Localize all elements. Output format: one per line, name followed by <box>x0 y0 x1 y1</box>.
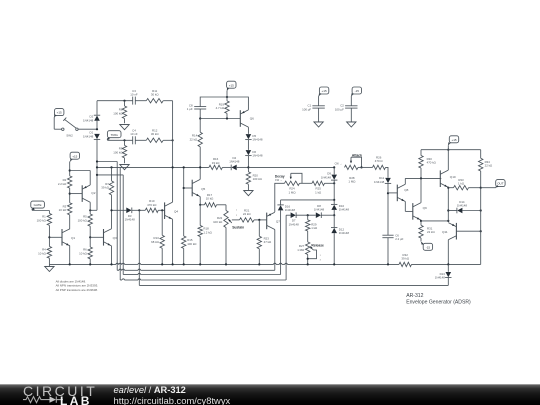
wire <box>96 174 123 176</box>
wire <box>481 187 496 189</box>
wire <box>386 167 389 177</box>
net flag GATE <box>31 201 45 210</box>
resistor R32 <box>399 253 412 267</box>
wire <box>405 202 413 212</box>
resistor R10 <box>145 199 158 212</box>
resistor R7 <box>101 167 113 210</box>
note text <box>56 279 99 291</box>
wire <box>247 127 249 134</box>
resistor R2 <box>58 176 72 188</box>
resistor R16 <box>209 157 223 169</box>
capacitor C2 <box>335 104 358 112</box>
ground <box>244 191 253 196</box>
resistor R17 <box>200 193 216 207</box>
diode D8 <box>314 204 325 218</box>
resistor R20 <box>246 167 262 190</box>
wire <box>89 226 91 247</box>
capacitor C4 <box>130 129 138 145</box>
wire <box>70 193 83 195</box>
diode D14 <box>457 200 468 213</box>
wire (feedback loop 2) <box>123 175 280 275</box>
capacitor C3 <box>130 89 138 104</box>
resistor R14 <box>190 119 203 168</box>
wire <box>184 187 193 189</box>
wire <box>274 230 276 271</box>
power flag +15 <box>319 87 329 96</box>
wire <box>307 255 309 265</box>
diode D7 <box>289 212 300 226</box>
wire <box>321 214 334 216</box>
transistor Q9 (NPN) <box>413 203 427 220</box>
wire <box>448 210 457 212</box>
transistor Q3 (NPN) <box>104 229 118 246</box>
wire (feedback loop 4) <box>139 210 448 285</box>
wire <box>107 139 132 141</box>
wire <box>333 210 335 216</box>
wire <box>70 170 91 172</box>
diode D13 <box>435 264 452 279</box>
wire <box>254 219 267 221</box>
resistor R23 <box>257 220 272 265</box>
wire <box>420 238 422 242</box>
wire <box>97 100 133 102</box>
wire <box>32 211 49 214</box>
ground bus wire <box>49 263 399 265</box>
wire <box>296 214 316 216</box>
wire <box>387 183 389 235</box>
ground <box>45 264 54 271</box>
wire <box>96 101 98 115</box>
diode D11 <box>374 176 391 184</box>
transistor Q4 (NPN) <box>165 202 179 219</box>
wire <box>469 187 482 189</box>
wire <box>281 199 335 201</box>
wire <box>456 230 481 232</box>
wire <box>300 182 313 184</box>
transistor Q8 (NPN) <box>397 184 408 201</box>
transistor Q1 (NPN) <box>62 229 75 246</box>
wire <box>404 178 406 184</box>
wire <box>183 248 185 264</box>
resistor R13 <box>151 210 164 264</box>
wire <box>200 117 240 119</box>
wire <box>318 108 320 122</box>
capacitor C1 <box>302 104 325 112</box>
wire <box>199 109 201 120</box>
resistor R5 <box>78 214 93 226</box>
ground <box>314 122 323 127</box>
diode D2 <box>83 115 100 123</box>
wire <box>183 167 185 236</box>
wire <box>48 225 50 246</box>
wire <box>111 246 113 265</box>
wire (feedback loop 1) <box>117 162 275 271</box>
resistor R34 <box>479 150 494 188</box>
wire <box>286 214 291 216</box>
wire <box>49 236 62 238</box>
wire <box>172 101 174 202</box>
diode D9 <box>321 167 338 180</box>
wire <box>158 209 164 211</box>
wire <box>135 100 146 102</box>
wire <box>333 233 335 264</box>
power flag +15 <box>70 152 79 161</box>
wire <box>96 166 125 168</box>
wire <box>420 178 422 202</box>
wire <box>222 166 231 168</box>
wire <box>447 150 449 170</box>
wire <box>132 209 146 211</box>
wire (feedback loop 3) <box>120 167 286 280</box>
transistor Q2 (PNP) <box>82 185 96 202</box>
ground <box>347 122 356 127</box>
resistor R8 <box>113 101 126 124</box>
wire <box>111 210 113 228</box>
wire <box>89 171 91 186</box>
diode D4 <box>229 156 240 170</box>
wire <box>447 145 449 151</box>
resistor R29 <box>306 215 319 231</box>
potentiometer R24 Decay <box>275 173 302 194</box>
wire <box>318 96 320 106</box>
net flag TRIG <box>107 131 121 140</box>
wire <box>307 231 309 242</box>
diode D10 <box>331 200 349 212</box>
resistor R6 <box>79 247 92 259</box>
wire <box>247 140 249 150</box>
wire <box>89 209 97 211</box>
wire <box>480 188 482 265</box>
diode D6 <box>245 150 263 158</box>
net flag OUT <box>496 180 505 188</box>
wire <box>285 215 287 280</box>
wire <box>96 121 98 129</box>
transistor Q6 (PNP) <box>240 110 254 127</box>
ground <box>120 165 129 170</box>
power flag +15 <box>448 136 458 145</box>
ground <box>120 125 129 130</box>
CircuitLab logo <box>23 383 97 399</box>
wire <box>69 246 71 265</box>
diode D3 <box>125 208 136 222</box>
capacitor C8 <box>187 103 206 111</box>
transistor Q10 (NPN) <box>440 170 456 187</box>
wire <box>447 278 449 286</box>
resistor R15 <box>182 236 198 248</box>
wire <box>358 166 373 168</box>
wire <box>69 188 71 203</box>
wire <box>96 160 117 162</box>
wire <box>247 156 249 168</box>
power flag +15 (switch supply) <box>54 109 64 118</box>
wire <box>217 205 227 211</box>
wire <box>172 219 174 264</box>
resistor R3 <box>59 203 72 215</box>
wire <box>308 250 317 259</box>
wire <box>225 228 227 265</box>
wire <box>280 210 282 274</box>
logo resistor-diode glyph <box>23 396 63 402</box>
wire <box>163 100 172 102</box>
wire <box>96 139 98 210</box>
wire <box>275 183 285 212</box>
resistor R4 <box>38 246 51 258</box>
resistor R30 <box>419 150 437 179</box>
wire <box>199 167 201 179</box>
switch SW2 <box>62 118 79 138</box>
resistor R1 <box>37 213 52 225</box>
wire <box>412 263 481 265</box>
resistor R12 <box>146 129 163 143</box>
diode D16 <box>277 200 295 212</box>
transistor Q5 (NPN) <box>192 179 205 196</box>
wire <box>420 220 422 226</box>
resistor R25 <box>312 181 325 194</box>
wire <box>110 209 126 211</box>
wire <box>350 108 352 122</box>
wire <box>163 139 174 141</box>
wire <box>421 220 449 222</box>
resistor R33 <box>448 178 468 190</box>
diode D12 <box>331 215 349 235</box>
resistor R26 <box>373 155 386 169</box>
wire <box>90 236 103 238</box>
wire <box>54 117 61 129</box>
wire <box>48 258 50 264</box>
wire <box>388 192 397 194</box>
power flag -15 <box>351 87 361 96</box>
resistor R31 <box>419 225 436 238</box>
wire <box>421 149 481 151</box>
wire <box>462 209 481 211</box>
wire <box>69 215 71 229</box>
potentiometer R27 Release <box>297 242 324 262</box>
wire <box>350 96 352 106</box>
wire <box>447 240 449 265</box>
wire <box>405 177 441 179</box>
title text <box>406 293 471 305</box>
power flag -15 <box>421 242 432 250</box>
wire <box>226 91 228 97</box>
resistor R21 <box>240 208 255 222</box>
wire <box>125 166 209 168</box>
capacitor C6 <box>382 233 403 241</box>
resistor R11 <box>146 89 163 103</box>
wire <box>89 259 91 265</box>
wire <box>199 197 201 206</box>
footer bar <box>0 384 540 405</box>
diode D1 <box>83 131 100 140</box>
potentiometer R22 Sustain <box>213 210 244 230</box>
wire <box>237 166 250 168</box>
transistor Q7 (PNP, emitter up) <box>267 212 281 229</box>
wire <box>78 128 98 130</box>
wire <box>248 166 335 168</box>
wire <box>333 180 335 201</box>
potentiometer R28 Attack <box>335 153 363 183</box>
wire <box>447 187 449 221</box>
wire <box>69 161 71 176</box>
diode D5 <box>245 134 263 142</box>
transistor Q11 (PNP, mirrored) <box>442 223 456 240</box>
wire <box>135 139 146 141</box>
power flag +15 <box>227 81 236 90</box>
resistor R9 <box>113 140 126 163</box>
wire <box>387 238 389 265</box>
resistor R19 <box>216 97 230 119</box>
wire <box>89 202 91 214</box>
wire <box>200 96 248 110</box>
wire <box>325 182 336 184</box>
wire <box>232 219 240 221</box>
resistor R18 <box>198 205 213 265</box>
